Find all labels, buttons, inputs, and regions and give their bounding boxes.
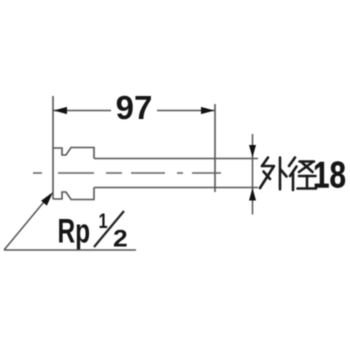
wire leader shelf underline (4, 249, 136, 251)
wire pipe top edge with extension to diameter dimension (94, 158, 258, 160)
svg-text:18: 18 (313, 155, 346, 196)
node fraction slash (94, 211, 124, 247)
node arrow top of diameter dimension pointing down (249, 145, 256, 158)
svg-text:1: 1 (99, 209, 108, 232)
svg-text:97: 97 (116, 89, 153, 126)
node kanji GAI (outer) hand drawn (260, 158, 287, 190)
wire vertical dimension line of outer diameter 18 (252, 134, 254, 215)
wire fitting outline upper profile (53, 148, 94, 159)
wire left edge and extension line of 97 dimension (52, 96, 54, 199)
wire leader diagonal to Rp thread (4, 197, 48, 250)
node leader arrowhead (41, 192, 53, 206)
wire fitting outline lower profile (53, 188, 94, 200)
svg-text:Rp: Rp (58, 213, 91, 251)
node arrow left of 97 dimension (54, 107, 68, 114)
node arrow right of 97 dimension (201, 107, 215, 114)
node kanji KEI (diameter) hand drawn (289, 158, 316, 191)
wire dimension line 97 left segment (53, 110, 111, 112)
wire pipe bottom edge with extension to diameter dimension (94, 187, 258, 189)
wire right extension line of 97 dimension and pipe end (214, 104, 216, 192)
node centerline (dash-dot axis) (33, 172, 222, 174)
svg-text:2: 2 (113, 226, 128, 253)
wire dimension line 97 right segment (157, 110, 215, 112)
node arrow bottom of diameter dimension pointing up (249, 188, 256, 201)
